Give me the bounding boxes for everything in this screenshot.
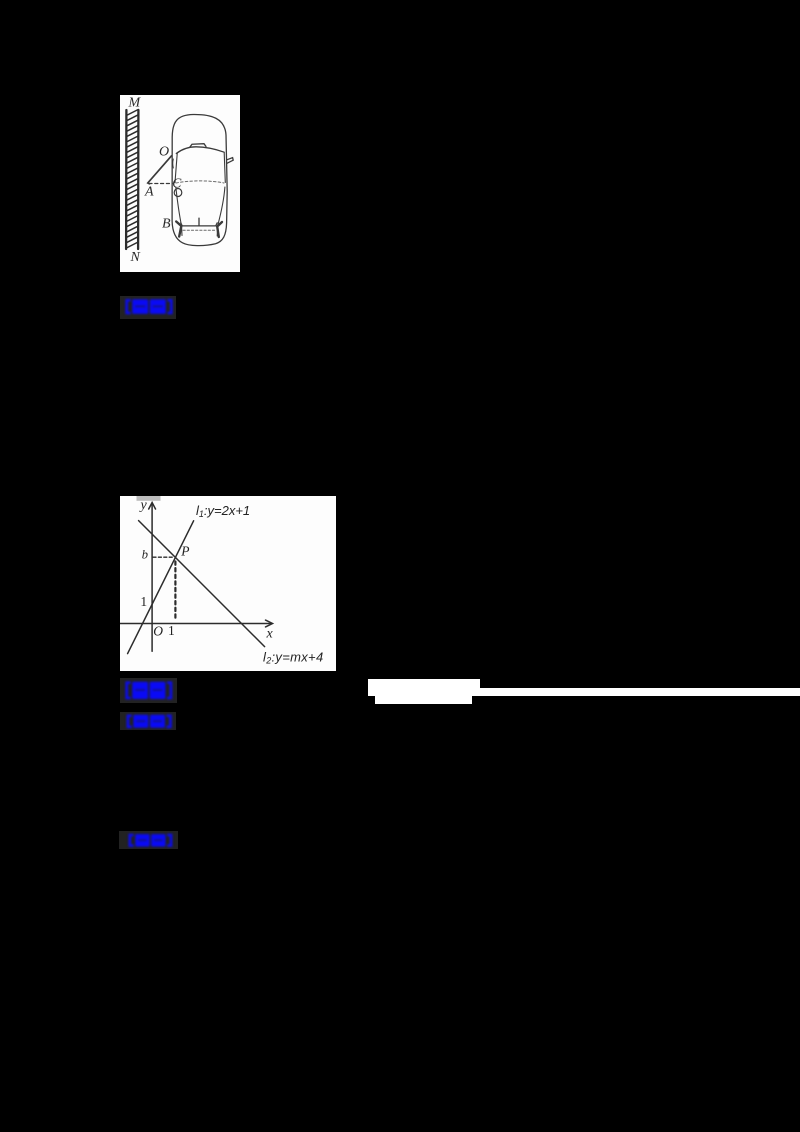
dotted P down to x axis [174, 562, 176, 621]
label 4 keynote tag [119, 831, 178, 850]
white answer blob [368, 679, 480, 696]
svg-text:O: O [153, 624, 163, 639]
label 3 analysis tag [120, 712, 176, 730]
y axis [151, 504, 153, 651]
figure: car beside wall MN [120, 95, 240, 272]
windshield curve [176, 147, 224, 154]
cabin left line [175, 153, 177, 183]
front left wheel notch [172, 159, 175, 168]
svg-text:N: N [130, 250, 141, 265]
line l2 y=mx+4 [138, 521, 264, 647]
svg-text:O: O [159, 145, 169, 160]
left inner door line [176, 187, 182, 236]
wall hatching [126, 110, 138, 249]
cabin dashed front seat line [176, 181, 224, 183]
svg-text:y: y [138, 498, 147, 513]
rear center tick [198, 218, 200, 225]
wall left line [125, 110, 128, 249]
trunk top line with hooks [181, 223, 218, 226]
label 1 answer tag [120, 296, 176, 319]
open door line O to A [148, 156, 172, 184]
rear right pillar [217, 222, 222, 237]
svg-text:B: B [162, 217, 171, 232]
car outer body [172, 114, 227, 245]
rear-view mirror bump [190, 144, 206, 147]
trunk dashed line [183, 229, 215, 231]
svg-text:1: 1 [168, 623, 175, 638]
right inner door line [217, 187, 225, 236]
svg-text:b: b [141, 548, 147, 562]
svg-text:l2:y=mx+4: l2:y=mx+4 [263, 650, 323, 666]
dashed A to C [149, 183, 172, 185]
dashed b to P [153, 556, 174, 558]
x axis [120, 623, 271, 625]
cabin right line [224, 153, 225, 183]
x axis arrowhead [265, 620, 272, 627]
white answer blob lower step [375, 695, 472, 704]
rear left pillar [176, 222, 181, 237]
right mirror [227, 158, 233, 164]
label 2 answer tag [120, 678, 177, 703]
svg-text:P: P [180, 544, 189, 559]
svg-text:C: C [172, 176, 182, 191]
svg-text:A: A [144, 185, 154, 200]
svg-text:1: 1 [140, 594, 147, 609]
wall right line [137, 110, 140, 249]
left mirror oval [174, 189, 182, 197]
y axis arrowhead [148, 503, 155, 510]
white underline strip to right edge [480, 688, 800, 696]
svg-text:x: x [265, 626, 273, 641]
gray smudge top-left [136, 496, 160, 501]
line l1 y=2x+1 [127, 521, 193, 654]
figure: graph of l1 and l2 [120, 496, 336, 671]
svg-text:l1:y=2x+1: l1:y=2x+1 [196, 503, 250, 519]
svg-text:M: M [128, 96, 142, 111]
